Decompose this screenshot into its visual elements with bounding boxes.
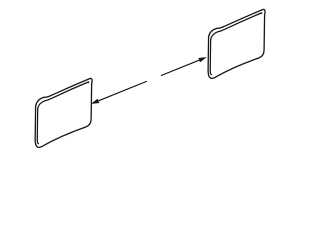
arrowhead at card 1: [92, 99, 100, 104]
arrowhead at card 2: [198, 57, 206, 62]
dashed connector segment 2 (upper-right dash): [161, 60, 200, 76]
card 1: lower-left device: [35, 78, 92, 147]
card 2: upper-right device: [208, 9, 265, 78]
dashed connector segment 1 (lower-left dash): [98, 81, 147, 101]
